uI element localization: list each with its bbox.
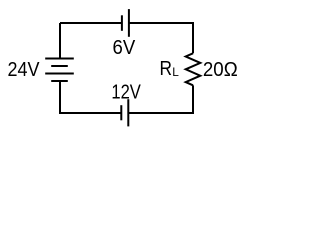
battery 12V short plate: [120, 105, 122, 120]
resistor RL zigzag: [186, 53, 201, 85]
wire left lower segment: [59, 81, 61, 114]
wire right lower segment: [192, 85, 194, 113]
wire right upper segment: [192, 22, 194, 53]
svg-text:L: L: [172, 65, 179, 79]
wire bottom-left segment: [60, 112, 122, 114]
svg-text:24V: 24V: [8, 58, 40, 81]
wire top-left segment: [60, 22, 121, 24]
battery 24V plate long bottom: [45, 73, 74, 75]
svg-text:R: R: [160, 57, 173, 80]
wire top-right segment: [129, 22, 193, 24]
battery 6V short plate: [121, 15, 123, 30]
svg-text:20Ω: 20Ω: [203, 58, 238, 81]
battery 24V plate long top: [45, 58, 74, 60]
battery 24V plate short upper: [51, 65, 68, 67]
battery 24V plate short lower: [51, 80, 68, 82]
wire left upper segment: [59, 23, 61, 59]
svg-text:12V: 12V: [111, 81, 141, 104]
battery 6V tall plate: [128, 9, 130, 37]
wire bottom-right segment: [129, 112, 195, 114]
battery 12V tall plate: [127, 99, 129, 126]
svg-text:6V: 6V: [113, 36, 136, 59]
